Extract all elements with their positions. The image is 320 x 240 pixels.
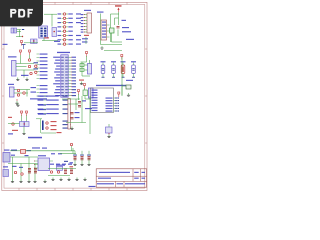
label PWRIN <box>11 150 17 151</box>
wire <box>113 63 115 66</box>
U1 right pin label 14 <box>72 95 76 96</box>
resistor R2 <box>63 17 65 19</box>
wire <box>118 12 120 25</box>
U1 right pin label 8 <box>72 77 76 78</box>
wire <box>81 62 83 76</box>
wire <box>37 60 40 62</box>
wire <box>68 103 78 105</box>
ground bottom 1 <box>12 180 14 182</box>
wire <box>14 89 30 91</box>
label near U5B 2 <box>31 92 37 93</box>
net label mid row 5 long <box>46 113 59 114</box>
net label mid row 5 left <box>38 113 44 114</box>
capacitor center low 2 <box>71 117 74 119</box>
U1 right pin label 1 <box>72 57 76 58</box>
wire <box>14 92 28 94</box>
title cell Drawn MFlow <box>98 178 111 179</box>
wire <box>19 30 21 38</box>
title cell company dynamics <box>125 183 145 184</box>
label center low 1 <box>75 112 80 113</box>
component S1 body b <box>25 122 30 127</box>
net label mid row 2 right <box>63 100 68 101</box>
resistor R15 <box>17 89 19 91</box>
U2 inner label left 4 <box>92 97 98 98</box>
title cell Rev <box>134 172 139 173</box>
op-amp U5B body <box>10 87 15 97</box>
component F1 body a <box>31 39 34 44</box>
net label row 3 right <box>68 22 73 23</box>
wire <box>28 157 30 180</box>
connector ICSP body <box>87 13 92 33</box>
capacitor PC1 b <box>28 171 31 173</box>
wire <box>42 40 58 42</box>
wire <box>114 18 116 25</box>
resistor R20 <box>70 143 72 145</box>
U1 left pin label 4 <box>56 66 60 67</box>
net label bottom row <box>68 164 72 165</box>
designator U5A <box>8 56 17 57</box>
resistor R1 <box>63 13 65 15</box>
ICSP pin label <box>81 32 84 33</box>
net label row 3 left <box>58 22 62 23</box>
junction dot F1 <box>33 40 34 41</box>
power flag low left 1 <box>21 113 23 116</box>
red label RESET-EN 2 <box>51 125 57 126</box>
cap bottom dash <box>112 76 115 79</box>
label +5V below caps <box>126 80 133 81</box>
capacitor D3 body <box>121 65 125 74</box>
ground bottom row 2 <box>60 178 62 180</box>
junction dot <box>108 133 109 134</box>
frame ruler ticks left <box>2 48 4 50</box>
label C1 <box>101 61 106 62</box>
U1 left pin label 2 <box>55 60 60 61</box>
title block column line B <box>140 169 142 182</box>
ground bottom 4 <box>34 180 36 182</box>
wire <box>88 159 90 162</box>
U1 left pin label 12 <box>55 89 60 90</box>
capacitor bottom 2b <box>70 171 73 173</box>
wire <box>62 39 64 41</box>
net label row 5 left <box>58 31 62 32</box>
U2 inner label right 5 <box>106 108 113 109</box>
ground bottom 2 <box>20 180 22 182</box>
wire <box>88 151 90 155</box>
ground cap bottom <box>88 163 90 165</box>
wire <box>17 31 21 33</box>
resistor R12 <box>30 72 32 74</box>
USB connector X2 pins <box>40 28 42 30</box>
wire <box>37 64 40 66</box>
wire <box>36 118 42 120</box>
wire <box>86 56 88 62</box>
power flag U5A area 1 <box>20 52 22 55</box>
label MC33269 <box>56 165 65 166</box>
title cell Date 2009-1-12 <box>97 183 114 184</box>
net label row 2 far right <box>76 18 81 19</box>
capacitor bottom row b <box>88 157 91 159</box>
net label column <box>40 57 48 58</box>
component F2 body <box>14 28 17 33</box>
U1 right pin label 9 <box>72 80 76 81</box>
red label near wire <box>57 132 62 133</box>
U1 right pin label 11 <box>72 86 76 87</box>
net label row 4 left <box>58 26 62 27</box>
inverted power pin <box>22 44 26 46</box>
U2 inner label left 1 <box>92 90 98 91</box>
wire <box>74 151 76 155</box>
ICSP pin label <box>81 26 84 27</box>
resistor R6 <box>63 34 65 36</box>
net label mid row 1 long <box>46 96 59 97</box>
wire <box>34 164 36 180</box>
wire <box>37 57 40 59</box>
wire <box>101 44 123 46</box>
wire <box>60 153 76 155</box>
wire <box>68 127 71 129</box>
ground low left <box>17 103 19 105</box>
cap label dash <box>73 154 77 157</box>
component right of U2 <box>126 85 131 89</box>
capacitor bottom 2 <box>70 168 73 170</box>
capacitor C5 body <box>80 68 84 71</box>
ground bottom row 1 <box>52 178 54 180</box>
net label row 8 right <box>68 44 73 45</box>
resistor R24 <box>57 171 59 173</box>
long net label row <box>30 98 47 99</box>
net label row 5 right <box>68 31 73 32</box>
wire <box>40 119 42 133</box>
label below ICSP 2 <box>82 41 88 42</box>
wire <box>37 85 40 87</box>
U1 left pin label 13 <box>54 92 60 93</box>
net label row 7 far right <box>76 39 81 40</box>
capacitor C6 body <box>83 90 88 96</box>
C8 inner plates <box>112 67 114 70</box>
wire <box>23 70 25 78</box>
header pin label <box>102 34 106 35</box>
wire <box>84 64 88 66</box>
resistor R10 <box>28 59 30 61</box>
net label mid row 4 long <box>46 109 59 110</box>
wire <box>44 108 46 110</box>
wire <box>111 33 113 42</box>
capacitor PC1 <box>28 168 31 170</box>
net label row 6 far right <box>76 35 81 36</box>
wire <box>111 13 120 15</box>
U1 right pin label 13 <box>72 92 76 93</box>
label C9 <box>131 61 136 62</box>
net label bottom row <box>56 164 60 165</box>
crystal Q1 body <box>88 64 92 75</box>
U2 inner label right 3 <box>106 103 113 104</box>
capacitor C9 body <box>132 65 136 74</box>
U2 inner label right 6 <box>106 111 113 112</box>
component S1 body a <box>20 122 25 127</box>
title block row line 2 <box>96 180 146 182</box>
wire <box>16 69 35 71</box>
header pin label <box>102 31 106 32</box>
title text DuemilanoveFIX_2.0_USB_3B <box>99 172 130 173</box>
component low right body <box>106 127 113 133</box>
wire <box>10 150 21 152</box>
wire <box>122 63 124 66</box>
net label mid row 4 left <box>38 109 44 110</box>
wire <box>62 13 64 15</box>
D3 red inner bar <box>122 67 123 73</box>
C9 inner plates <box>132 67 134 70</box>
label net right of cap 2 <box>122 31 131 32</box>
label +5V net <box>126 39 134 40</box>
value label mid bottom <box>51 153 55 154</box>
designator X1 <box>4 150 10 151</box>
U1 right pin label 4 <box>72 66 76 67</box>
wire <box>37 67 40 69</box>
junction dot <box>16 99 17 100</box>
designator X2 <box>3 166 8 167</box>
ground low right <box>108 135 110 137</box>
wire <box>37 53 40 55</box>
note text near title block <box>89 186 96 187</box>
wire <box>37 92 40 94</box>
capacitor center 1b <box>78 105 81 107</box>
wire <box>26 90 28 97</box>
wire <box>62 30 64 32</box>
ground cap bottom <box>81 163 83 165</box>
wire <box>24 42 38 44</box>
power flag cluster 2 <box>84 86 86 89</box>
label near R13 <box>34 62 39 63</box>
connector JP header body <box>101 20 107 40</box>
net label row 6 left <box>58 35 62 36</box>
net label column <box>40 78 48 79</box>
power jack X1 body <box>3 153 10 163</box>
capacitor bottom row <box>74 156 77 158</box>
U1 right pin label 6 <box>72 71 76 72</box>
ground U5B <box>16 101 18 103</box>
net label above bottom section 2 <box>42 148 47 149</box>
wire <box>62 43 64 45</box>
wire <box>62 17 64 19</box>
cap bottom dash <box>132 76 135 79</box>
connector JP2 tall body <box>68 99 70 130</box>
label near R14 <box>34 68 39 69</box>
U2 inner label left 3 <box>92 95 98 96</box>
frame ruler ticks top <box>18 2 20 4</box>
wire <box>16 36 22 38</box>
capacitor bottom 1b <box>64 171 67 173</box>
wire <box>44 95 46 97</box>
resistor R14 <box>35 71 37 73</box>
wire <box>17 29 21 31</box>
resistor R26 <box>46 122 48 124</box>
capacitor PC2 <box>34 168 37 170</box>
net label mid row 1 right <box>63 96 68 97</box>
IC U1 name ATMEGA328 <box>57 52 70 53</box>
U2 inner label left 2 <box>92 92 98 93</box>
inductor L1 body <box>110 28 115 33</box>
ground bottom row 4 <box>76 178 78 180</box>
navy dash <box>22 29 24 30</box>
wire <box>75 99 77 110</box>
resistor R27 <box>46 127 48 129</box>
wire <box>29 55 31 59</box>
net label column <box>40 96 48 97</box>
resistor R7 <box>63 39 65 41</box>
net label right cluster <box>63 124 68 125</box>
power flag below badge <box>21 43 23 46</box>
title cell size value <box>142 178 146 179</box>
power flag VCC <box>118 9 120 12</box>
net label row 2 left <box>58 18 62 19</box>
U1 left pin label 14 <box>55 95 60 96</box>
net label row 1 left <box>58 13 62 14</box>
label near R22 <box>19 167 23 168</box>
net label row 6 right <box>68 35 73 36</box>
net label row 3 far right <box>76 22 81 23</box>
net label pair <box>38 114 46 115</box>
wire <box>121 84 123 95</box>
ground cap bottom <box>74 163 76 165</box>
U2 inner label left 7 <box>92 105 98 106</box>
net label above bottom section <box>32 147 40 148</box>
header pin label <box>102 28 106 29</box>
resistor R8 <box>63 43 65 45</box>
wire <box>62 98 80 100</box>
ground bottom row 5 <box>84 178 86 180</box>
wire <box>62 26 64 28</box>
U1 left pin label 6 <box>54 71 60 72</box>
label LMV358 <box>21 75 29 76</box>
component T1 body <box>52 28 57 37</box>
wire <box>68 120 71 122</box>
wire <box>26 150 76 152</box>
resistor R22 <box>21 173 23 175</box>
frame ruler ticks bottom <box>18 188 20 190</box>
PDF badge text letter F <box>28 9 33 18</box>
ARDUINO text <box>28 137 42 139</box>
IC U1 inner pin dashes right <box>65 57 68 58</box>
net label mid row 2 long <box>46 100 59 101</box>
connector ICSP pins <box>84 14 87 16</box>
capacitor C1 body <box>101 65 105 74</box>
resistor R3 <box>63 21 65 23</box>
wire <box>44 99 46 101</box>
junction dot <box>22 36 23 37</box>
capacitor bottom row b <box>81 157 84 159</box>
net label row 7 left <box>58 39 62 40</box>
wire <box>68 124 71 126</box>
wire <box>104 50 122 52</box>
U1 left pin label 7 <box>56 74 60 75</box>
ground bottom 5 <box>44 180 46 182</box>
connector JP right stubs <box>107 24 110 26</box>
IC U1 right pins <box>68 56 71 58</box>
resistor R11 <box>28 65 30 67</box>
title block column line D <box>123 181 125 187</box>
wire <box>48 168 76 170</box>
label left of cap trio <box>70 162 74 163</box>
U2 inner label right 2 <box>106 100 113 101</box>
cap label dash <box>87 154 91 157</box>
wire <box>37 71 40 73</box>
label right of connector <box>85 108 92 109</box>
net label right cluster <box>63 128 68 129</box>
ground bottom 3 <box>28 180 30 182</box>
net label row 1 right <box>68 13 73 14</box>
net label mid row 1 left <box>38 96 44 97</box>
schematic frame inner border <box>4 5 145 189</box>
net label pair <box>38 105 46 106</box>
net label row 4 right <box>68 26 73 27</box>
label D3 <box>121 61 126 62</box>
net label column <box>40 54 48 55</box>
GND text low left <box>12 130 18 131</box>
wire <box>74 159 76 162</box>
U1 left pin label 1 <box>53 57 60 58</box>
wire <box>62 35 64 37</box>
wire <box>12 157 14 180</box>
C1 inner plates <box>102 67 104 70</box>
junction dot <box>24 123 25 124</box>
designator U5B <box>8 84 14 85</box>
label near T1 <box>54 41 60 42</box>
title block box <box>96 169 146 187</box>
net label row 2 right <box>68 18 73 19</box>
value label mid bottom 2 <box>58 153 62 154</box>
wire <box>44 13 57 15</box>
label center low 2 <box>75 117 80 118</box>
cap label dash <box>80 154 84 157</box>
wire <box>26 116 28 122</box>
capacitor bottom 1 <box>64 168 67 170</box>
U1 left pin label 8 <box>54 77 60 78</box>
resistor R17 <box>23 92 25 94</box>
net label pair <box>38 109 46 110</box>
capacitor bottom row <box>88 156 91 158</box>
value label diode area <box>25 155 29 156</box>
ICSP pin label <box>81 14 84 15</box>
wire <box>84 69 88 71</box>
capacitor PC2 b <box>34 171 37 173</box>
net label column <box>40 61 48 62</box>
wire <box>16 66 27 68</box>
resistor R23 <box>50 171 52 173</box>
resistor R21 <box>14 171 16 173</box>
wire <box>8 163 38 165</box>
net label row 8 far right <box>76 44 81 45</box>
wire <box>48 175 70 177</box>
component Y2 body <box>89 88 94 98</box>
ground U5A <box>17 78 19 80</box>
U1 right pin label 3 <box>72 63 76 64</box>
wire <box>23 127 25 132</box>
net label mid row 4 right <box>63 109 68 110</box>
schematic frame outer border <box>2 2 147 190</box>
wire <box>62 22 64 24</box>
U1 left pin label 11 <box>56 86 60 87</box>
resistor R13 <box>35 65 37 67</box>
U1 left pin label 9 <box>55 80 60 81</box>
U2 inner label left 5 <box>92 100 98 101</box>
power flag near U2 <box>118 94 120 97</box>
wire <box>72 148 74 154</box>
component T1 pin dot <box>53 31 55 33</box>
wire <box>37 88 40 90</box>
wire <box>66 122 86 124</box>
red label left of cap trio <box>70 166 74 167</box>
PDF badge text letter P <box>10 9 16 18</box>
